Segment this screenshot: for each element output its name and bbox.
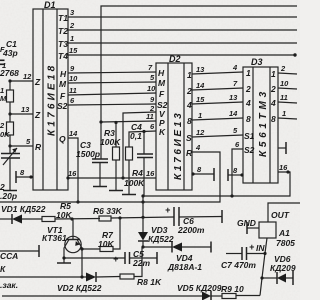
wire top bus bbox=[101, 6, 297, 159]
resistor R3 100K bbox=[100, 123, 123, 191]
wire D2-D3 1 bbox=[187, 63, 251, 80]
wire D3 right 2 bbox=[270, 79, 297, 94]
wire pin8 D1 common bbox=[16, 168, 33, 183]
wire Vdd pin16 D1 to pin16 D2 bbox=[66, 169, 156, 180]
wire pin8 D3 common bbox=[228, 166, 244, 181]
wire D2-D3 2 bbox=[186, 79, 251, 96]
wire S2 D1-D2 pin6-pin9 bbox=[57, 95, 168, 111]
resistor R8 1K bbox=[120, 247, 162, 287]
diode VD4 Д818А-1 bbox=[143, 242, 211, 273]
wire K pin6 bbox=[129, 122, 166, 147]
wire F D1-D2 pin11-pin10 bbox=[60, 84, 165, 101]
wire pin8 D2 common bbox=[191, 165, 214, 181]
resistor R2 100K bbox=[0, 114, 14, 146]
resistor R1 1M bbox=[0, 81, 14, 114]
diode VD2 КД522 bbox=[0, 272, 120, 293]
capacitor C5 22m bbox=[62, 249, 157, 268]
resistor R6 33K bbox=[93, 206, 123, 221]
quartz ZQ1 32768 fragment bbox=[0, 60, 19, 79]
wire T3 pin1 bbox=[58, 34, 297, 49]
diode VD1 КД522 bbox=[1, 204, 46, 224]
IC D2 bbox=[156, 54, 192, 190]
capacitor C2 trimmer bbox=[0, 146, 20, 201]
IC D3 bbox=[243, 57, 278, 183]
wire T4 pin15 bbox=[58, 46, 297, 61]
wire correction line y218 bbox=[0, 210, 222, 223]
capacitor C6 2200m bbox=[165, 205, 205, 235]
wire D3 right 1 bbox=[271, 64, 297, 79]
wire D2-D3 4 bbox=[186, 93, 251, 110]
wire D2-D3 8 bbox=[187, 109, 251, 126]
wire D3 S2 bbox=[232, 140, 255, 196]
wire P pin11 bbox=[99, 112, 165, 128]
wire V pin2 bbox=[121, 104, 166, 180]
wire R pin5 bbox=[8, 137, 42, 152]
wire T2 pin2 bbox=[58, 21, 297, 36]
rail A bbox=[141, 163, 290, 198]
capacitor C4 0,1 bbox=[130, 122, 153, 196]
wire D2 S - D3 S1 bbox=[186, 126, 255, 143]
capacitor C7 470m bbox=[221, 242, 267, 270]
wire H D1-D2 pin9-pin7 bbox=[60, 63, 165, 79]
wire T1 pin3 bbox=[58, 8, 297, 23]
wire Q pin14 bbox=[59, 129, 80, 204]
wire D3 right common bbox=[278, 142, 286, 154]
wire D3 right 4 bbox=[270, 93, 297, 108]
capacitor C1 43p fragment bbox=[0, 39, 18, 58]
diode VD6 КД209 bbox=[260, 254, 295, 285]
wire CCA stub bbox=[0, 245, 39, 290]
resistor R7 10K bbox=[80, 218, 120, 252]
node Z pin12 bbox=[8, 72, 41, 87]
wire bottom minus bbox=[2, 295, 260, 298]
regulator A1 7805 bbox=[237, 203, 300, 296]
rail B bbox=[0, 143, 220, 204]
capacitor C3 1500p bbox=[76, 140, 108, 187]
wire D3 right 8 bbox=[271, 109, 297, 124]
resistor R9 10 bbox=[221, 284, 244, 299]
wire M D1-D2 pin10-pin5 bbox=[59, 73, 166, 89]
diode VD3 КД522 bbox=[138, 196, 174, 249]
node Z pin13 bbox=[8, 105, 41, 120]
resistor R5 10K bbox=[42, 201, 72, 222]
IC D1 bbox=[33, 0, 68, 190]
transistor VT1 КТ361 bbox=[42, 219, 82, 277]
resistor R4 100K bbox=[122, 147, 145, 195]
diode VD5 КД209 bbox=[177, 283, 222, 300]
